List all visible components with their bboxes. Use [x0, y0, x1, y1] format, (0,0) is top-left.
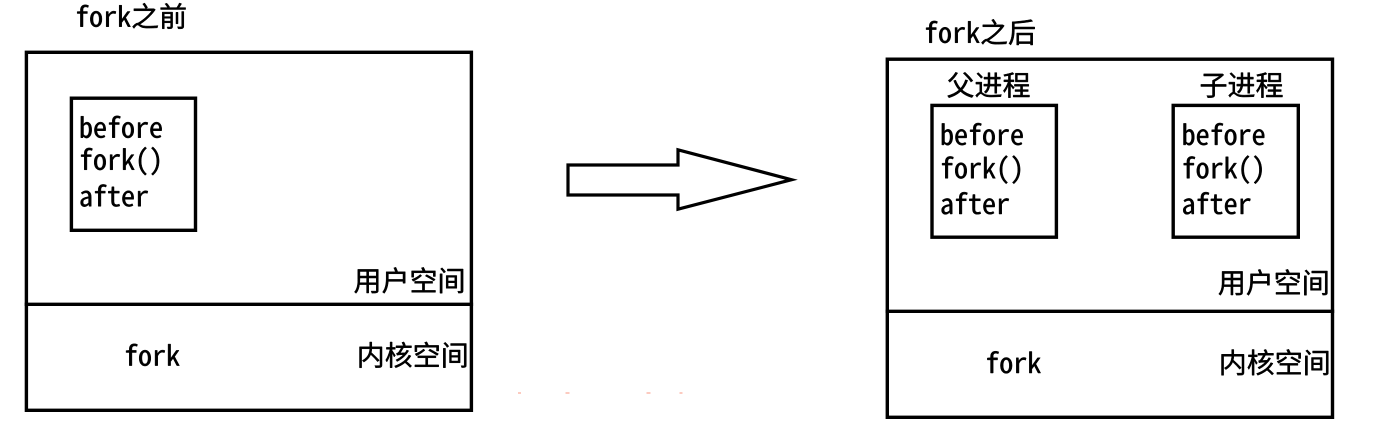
big hollow arrow pointing right — [568, 150, 792, 209]
left outer box: process address space before fork — [26, 52, 471, 410]
faint watermark dot 2 — [566, 392, 570, 394]
parent inner code box — [932, 105, 1056, 237]
label "父进程" parent process — [948, 72, 1030, 98]
right outer box: address spaces after fork — [887, 59, 1332, 417]
right divider line between user space and kernel space — [886, 310, 1335, 313]
code line "after" (parent box) — [942, 192, 1009, 214]
code line "before" (parent box) — [942, 123, 1023, 145]
label "子进程" child process — [1201, 72, 1283, 97]
text "fork" in kernel space (right) — [987, 351, 1040, 373]
text "内核空间" kernel space (right) — [1222, 349, 1329, 375]
text "用户空间" user space (left) — [354, 267, 463, 293]
title text "fork之前" (before fork) — [77, 3, 185, 29]
faint watermark dot 3 — [647, 392, 651, 394]
faint watermark dot 4 — [680, 392, 683, 394]
text "用户空间" user space (right) — [1219, 269, 1328, 295]
code line "after" (child box) — [1183, 192, 1250, 214]
title text "fork之后" (after fork) — [926, 19, 1035, 45]
text "fork" in kernel space (left) — [126, 344, 179, 366]
code line "after" (left box) — [81, 184, 148, 206]
faint watermark dot 1 — [518, 392, 521, 394]
code line "fork()" (child box) — [1184, 155, 1262, 183]
code line "before" (child box) — [1184, 123, 1265, 145]
code line "fork()" (parent box) — [942, 155, 1020, 183]
text "内核空间" kernel space (left) — [360, 342, 467, 368]
code line "fork()" (left box) — [81, 147, 159, 175]
child inner code box — [1173, 105, 1298, 237]
left inner code box — [71, 98, 195, 230]
code line "before" (left box) — [81, 116, 162, 138]
left divider line between user space and kernel space — [25, 303, 473, 306]
